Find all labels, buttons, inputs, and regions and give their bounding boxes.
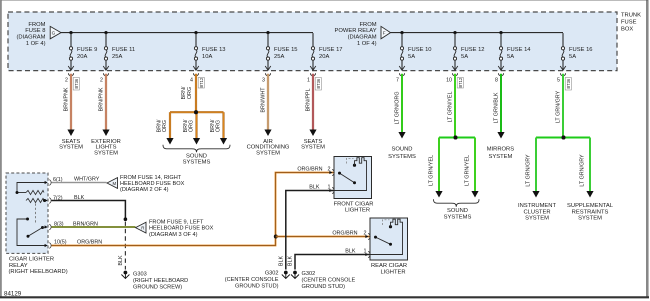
svg-text:LT GRN/YEL: LT GRN/YEL	[447, 92, 453, 123]
right supply bus wire	[391, 32, 564, 34]
svg-text:FUSE 9: FUSE 9	[77, 47, 97, 53]
svg-text:BOX: BOX	[621, 26, 633, 32]
BLK hidden run (dashed)	[124, 222, 126, 270]
svg-text:ORG: ORG	[187, 87, 193, 99]
fuse F17 (FUSE 17 20A)	[310, 33, 342, 70]
connector triangle R (to fuse 9)	[136, 222, 147, 233]
svg-text:SOUND: SOUND	[447, 208, 468, 214]
svg-text:GROUND STUD): GROUND STUD)	[302, 284, 346, 290]
cigar lighter relay U1 (box)	[6, 173, 48, 253]
wire BRN/WHT fuse15 to air conditioning	[260, 74, 271, 136]
instrument cluster system label	[518, 203, 556, 222]
svg-text:FROM: FROM	[360, 22, 377, 28]
relay pin chevron y=200.5	[49, 198, 51, 204]
svg-text:LIGHTER: LIGHTER	[345, 208, 370, 214]
wire WHT/GRY relay pin6	[52, 177, 107, 183]
svg-text:G: G	[52, 31, 56, 36]
connector pin 4 at x=196	[190, 73, 199, 83]
svg-text:BT12: BT12	[199, 77, 204, 88]
junction node on LT GRN/YEL	[454, 136, 458, 140]
svg-text:84129: 84129	[4, 290, 22, 297]
relay switch	[17, 218, 47, 246]
svg-text:BT36: BT36	[74, 78, 79, 89]
relay pin chevron y=245.5	[49, 243, 51, 249]
svg-text:BLK: BLK	[278, 256, 284, 267]
BRN/ORG distribution wire	[170, 111, 224, 113]
svg-text:SYSTEMS: SYSTEMS	[183, 159, 211, 165]
ground G302 (front)	[282, 271, 290, 279]
front cigar lighter contact arm	[340, 173, 355, 183]
wire BLK relay pin7 to G303	[52, 195, 126, 218]
wire BRN/ORG branch at x=170	[156, 112, 173, 144]
seats system label	[59, 139, 83, 151]
connector label BT12 at x=455	[457, 77, 463, 88]
svg-text:LIGHTER: LIGHTER	[380, 269, 405, 275]
svg-text:M: M	[112, 181, 116, 186]
svg-text:(DIAGRAM: (DIAGRAM	[17, 35, 46, 41]
svg-text:SYSTEM: SYSTEM	[301, 145, 325, 151]
svg-text:BLK: BLK	[309, 184, 320, 190]
wire LT GRN/YEL branch at x=439	[429, 138, 443, 198]
svg-text:GROUND SCREW): GROUND SCREW)	[133, 284, 182, 290]
svg-text:BT36: BT36	[316, 78, 321, 89]
svg-text:BLK: BLK	[345, 248, 356, 254]
svg-text:20A: 20A	[319, 54, 329, 60]
air conditioning system label	[247, 139, 290, 156]
bus junction at x=501	[499, 31, 502, 34]
connector pin 2 at x=106	[100, 73, 109, 83]
svg-text:CLUSTER: CLUSTER	[523, 209, 550, 215]
connector pin 3 at x=268	[262, 73, 271, 83]
front cigar lighter pin labels	[297, 166, 330, 190]
svg-text:5A: 5A	[461, 54, 468, 60]
sound systems label (left)	[183, 154, 211, 166]
rear cigar lighter element	[383, 220, 390, 225]
svg-text:25A: 25A	[274, 54, 284, 60]
wire LT GRN/ORG fuse10 to sound systems	[394, 74, 405, 139]
bus junction at x=402	[400, 31, 403, 34]
relay name label	[9, 257, 68, 275]
svg-text:SYSTEM: SYSTEM	[59, 145, 83, 151]
svg-text:TRUNK: TRUNK	[621, 12, 641, 18]
connector label BT12 at x=196	[198, 77, 204, 88]
junction node on BRN/ORG	[194, 110, 198, 114]
connector label BT36 at x=313	[315, 78, 321, 91]
connector triangle M (to fuse 14)	[107, 178, 118, 189]
svg-text:BLK: BLK	[288, 256, 294, 267]
svg-text:BT12: BT12	[458, 77, 463, 88]
svg-text:FRONT CIGAR: FRONT CIGAR	[334, 201, 374, 207]
svg-text:FUSE 11: FUSE 11	[112, 47, 135, 53]
connector pin 8 at x=501	[495, 73, 504, 83]
svg-text:RESTRAINTS: RESTRAINTS	[572, 209, 609, 215]
svg-text:FUSE 17: FUSE 17	[319, 47, 343, 53]
svg-text:G303: G303	[133, 272, 147, 278]
svg-text:F: F	[383, 31, 386, 36]
connector label BT36 at x=563	[565, 78, 571, 91]
LT GRN/YEL distribution wire	[439, 137, 475, 139]
fuse F14 (FUSE 14 5A)	[498, 33, 531, 70]
relay pin chevron y=182.5	[49, 180, 51, 186]
svg-text:ORG: ORG	[162, 120, 168, 132]
G303 label	[133, 272, 188, 291]
ground G302 (rear)	[291, 271, 299, 279]
svg-text:BLK: BLK	[74, 195, 85, 201]
svg-text:FROM FUSE 14, RIGHT: FROM FUSE 14, RIGHT	[120, 175, 182, 181]
svg-text:INSTRUMENT: INSTRUMENT	[518, 203, 556, 209]
svg-text:FUSE 13: FUSE 13	[202, 47, 226, 53]
fuse F13 (FUSE 13 10A)	[193, 33, 225, 70]
junction node on ORG/BRN	[274, 235, 278, 239]
svg-text:(CENTER CONSOLE: (CENTER CONSOLE	[225, 277, 279, 283]
wire BRN/GRN relay pin8	[52, 221, 136, 227]
svg-text:SYSTEM: SYSTEM	[94, 150, 118, 156]
mirrors system label	[487, 147, 515, 160]
connector triangle F	[381, 26, 391, 38]
wire BRN/ORG fuse13 trunk	[181, 74, 196, 112]
svg-text:SOUND: SOUND	[392, 147, 413, 153]
svg-text:10A: 10A	[202, 54, 212, 60]
connector pin 1 at x=313	[307, 73, 316, 83]
junction node on LT GRN/GRY	[562, 136, 566, 140]
wire BRN/ORG branch at x=196.5	[183, 112, 200, 144]
G302 label (right)	[302, 271, 356, 290]
svg-text:BRN/PNK: BRN/PNK	[64, 87, 70, 111]
trunk fuse box (dashed enclosure)	[8, 12, 617, 71]
svg-text:20A: 20A	[77, 54, 87, 60]
brace sound systems right	[434, 199, 480, 207]
svg-text:G302: G302	[265, 271, 279, 277]
svg-text:HEELBOARD FUSE BOX: HEELBOARD FUSE BOX	[120, 181, 185, 187]
svg-text:3: 3	[262, 77, 265, 83]
relay actuator link (dashed)	[35, 204, 37, 225]
svg-text:ORG: ORG	[189, 120, 195, 132]
relay pin labels	[53, 177, 67, 246]
wire BRN/PNK fuse11 to exterior lights	[99, 74, 110, 136]
wire LT GRN/BLK fuse14 to mirrors system	[493, 74, 504, 139]
svg-text:LT GRN/ORG: LT GRN/ORG	[394, 91, 400, 124]
fuse F9 (FUSE 9 20A)	[68, 33, 97, 70]
connector triangle G	[50, 26, 61, 38]
wire BLK front lighter to G302	[286, 191, 334, 270]
svg-text:LT GRN/YEL: LT GRN/YEL	[465, 155, 471, 186]
svg-text:SYSTEM: SYSTEM	[256, 150, 280, 156]
from fuse 14 note	[120, 175, 185, 193]
LT GRN/GRY distribution wire	[536, 137, 590, 139]
svg-text:BRN/WHT: BRN/WHT	[260, 87, 266, 113]
svg-text:1: 1	[364, 248, 367, 254]
wire LT GRN/YEL branch at x=475	[465, 138, 479, 198]
wire LT GRN/GRY branch at x=590	[580, 138, 594, 198]
fuse F11 (FUSE 11 25A)	[103, 33, 135, 70]
svg-text:FUSE 8: FUSE 8	[25, 28, 45, 34]
svg-text:LT GRN/BLK: LT GRN/BLK	[493, 92, 499, 123]
svg-text:2: 2	[364, 230, 367, 236]
fuse F16 (FUSE 16 5A)	[560, 33, 592, 70]
svg-text:8: 8	[495, 77, 498, 83]
trunk fuse box label	[621, 12, 641, 32]
supplemental restraints system label	[567, 203, 614, 222]
svg-text:WHT/GRY: WHT/GRY	[74, 177, 100, 183]
svg-text:2: 2	[328, 166, 331, 172]
front cigar lighter name	[334, 201, 374, 213]
svg-text:BLK: BLK	[118, 255, 124, 266]
svg-text:FUSE 15: FUSE 15	[274, 47, 298, 53]
svg-text:FUSE 14: FUSE 14	[507, 47, 531, 53]
svg-text:2: 2	[100, 77, 103, 83]
fuse F10 (FUSE 10 5A)	[399, 33, 431, 70]
svg-text:10: 10	[446, 77, 452, 83]
junction node repaint (LT GRN/YEL)	[454, 136, 458, 140]
bus junction at x=71	[69, 31, 72, 34]
exterior lights system label	[91, 139, 121, 156]
svg-text:2: 2	[65, 77, 68, 83]
svg-text:G302: G302	[302, 271, 316, 277]
svg-text:5A: 5A	[569, 54, 576, 60]
svg-text:ORG/BRN: ORG/BRN	[332, 230, 357, 236]
svg-text:FUSE 12: FUSE 12	[461, 47, 485, 53]
svg-text:LT GRN/GRY: LT GRN/GRY	[555, 90, 561, 123]
bus junction at x=455	[453, 31, 456, 34]
svg-text:FUSE 16: FUSE 16	[569, 47, 593, 53]
wire LT GRN/YEL fuse12 trunk	[447, 74, 455, 138]
svg-text:SYSTEM: SYSTEM	[488, 154, 512, 160]
svg-text:LT GRN/GRY: LT GRN/GRY	[526, 154, 532, 187]
svg-text:SYSTEMS: SYSTEMS	[388, 154, 416, 160]
relay pin chevron y=227	[49, 224, 51, 230]
brace sound systems left	[163, 145, 230, 153]
rear cigar lighter name	[371, 263, 407, 275]
connector pin 7 at x=402	[396, 73, 405, 83]
wire ORG/BRN relay pin10 to front cigar lighter	[52, 173, 334, 246]
bus junction at x=196	[194, 31, 197, 34]
svg-text:BRN/GRN: BRN/GRN	[73, 221, 98, 227]
wire BRN/PPL fuse17 to seats system	[306, 74, 317, 136]
svg-text:CIGAR LIGHTER: CIGAR LIGHTER	[9, 257, 54, 263]
svg-text:BRN/PPL: BRN/PPL	[306, 88, 312, 111]
svg-text:(DIAGRAM 3 OF 4): (DIAGRAM 3 OF 4)	[149, 232, 198, 238]
svg-text:REAR CIGAR: REAR CIGAR	[371, 263, 407, 269]
front cigar lighter (box)	[334, 157, 372, 199]
rear cigar lighter (box)	[370, 218, 408, 260]
svg-text:POWER RELAY: POWER RELAY	[335, 28, 377, 34]
svg-text:ORG/BRN: ORG/BRN	[297, 166, 322, 172]
svg-text:ORG: ORG	[216, 120, 222, 132]
svg-text:MIRRORS: MIRRORS	[487, 147, 515, 153]
fuse F12 (FUSE 12 5A)	[452, 33, 484, 70]
rear cigar lighter contact arm	[376, 237, 391, 244]
junction node repaint (LT GRN/GRY)	[562, 136, 566, 140]
wire ORG/BRN branch to rear cigar lighter	[276, 236, 370, 238]
connector label BT36 at x=71	[73, 78, 79, 91]
svg-text:5A: 5A	[507, 54, 514, 60]
svg-text:FROM: FROM	[28, 22, 45, 28]
svg-text:1 OF 4): 1 OF 4)	[26, 41, 46, 47]
wire LT GRN/GRY fuse16 trunk	[555, 74, 563, 138]
svg-text:SUPPLEMENTAL: SUPPLEMENTAL	[567, 203, 614, 209]
front cigar lighter element	[347, 158, 354, 163]
svg-text:FUSE: FUSE	[621, 19, 637, 25]
from fuse 9 note	[149, 220, 214, 238]
svg-text:R: R	[141, 225, 144, 230]
bus junction at x=106	[104, 31, 107, 34]
sound systems label (pair)	[444, 208, 472, 221]
wire BLK rear lighter to G302	[295, 255, 370, 270]
sound systems label (col 402)	[388, 147, 416, 160]
rear cigar lighter pin labels	[332, 230, 366, 254]
left supply bus wire	[61, 32, 313, 34]
from fuse 8 source label	[17, 22, 46, 47]
svg-text:25A: 25A	[112, 54, 122, 60]
fuse F15 (FUSE 15 25A)	[265, 33, 297, 70]
svg-text:HEELBOARD FUSE BOX: HEELBOARD FUSE BOX	[149, 226, 214, 232]
ground G303	[121, 271, 129, 279]
svg-text:SYSTEM: SYSTEM	[525, 216, 549, 222]
svg-text:LT GRN/GRY: LT GRN/GRY	[580, 154, 586, 187]
svg-text:SYSTEM: SYSTEM	[578, 216, 602, 222]
svg-text:1 OF 4): 1 OF 4)	[357, 41, 377, 47]
junction node repaint (BRN/ORG)	[194, 110, 198, 114]
svg-text:7: 7	[396, 77, 399, 83]
wire BRN/PNK fuse9 to seats system	[64, 74, 75, 136]
svg-text:(CENTER CONSOLE: (CENTER CONSOLE	[302, 277, 356, 283]
svg-text:(DIAGRAM 2 OF 4): (DIAGRAM 2 OF 4)	[120, 187, 169, 193]
connector pin 10 at x=455	[446, 73, 458, 83]
G302 label (left)	[225, 271, 279, 290]
svg-text:RELAY: RELAY	[9, 263, 28, 269]
svg-text:(RIGHT HEELBOARD: (RIGHT HEELBOARD	[133, 278, 188, 284]
connector pin 5 at x=563	[557, 73, 566, 83]
svg-text:FROM FUSE 9, LEFT: FROM FUSE 9, LEFT	[149, 220, 204, 226]
seats system label (right of left group)	[301, 139, 325, 151]
svg-text:LT GRN/YEL: LT GRN/YEL	[429, 155, 435, 186]
wire LT GRN/GRY branch at x=536	[526, 138, 540, 198]
wire BRN/ORG branch at x=223.5	[210, 112, 227, 144]
svg-text:GROUND STUD): GROUND STUD)	[235, 284, 279, 290]
svg-text:1: 1	[328, 184, 331, 190]
relay coil	[16, 183, 48, 203]
svg-text:BRN/PNK: BRN/PNK	[99, 87, 105, 111]
junction node on BLK	[124, 217, 128, 221]
svg-text:4: 4	[190, 77, 193, 83]
svg-text:ORG/BRN: ORG/BRN	[77, 240, 102, 246]
svg-text:5A: 5A	[408, 54, 415, 60]
svg-text:SYSTEMS: SYSTEMS	[444, 215, 472, 221]
svg-text:(DIAGRAM: (DIAGRAM	[348, 35, 377, 41]
svg-text:(RIGHT HEELBOARD): (RIGHT HEELBOARD)	[9, 269, 68, 275]
svg-text:1: 1	[307, 77, 310, 83]
connector pin 2 at x=71	[65, 73, 74, 83]
from power relay source label	[335, 22, 377, 47]
svg-text:5: 5	[557, 77, 560, 83]
bus junction at x=268	[266, 31, 269, 34]
svg-text:BT36: BT36	[566, 78, 571, 89]
svg-text:FUSE 10: FUSE 10	[408, 47, 432, 53]
